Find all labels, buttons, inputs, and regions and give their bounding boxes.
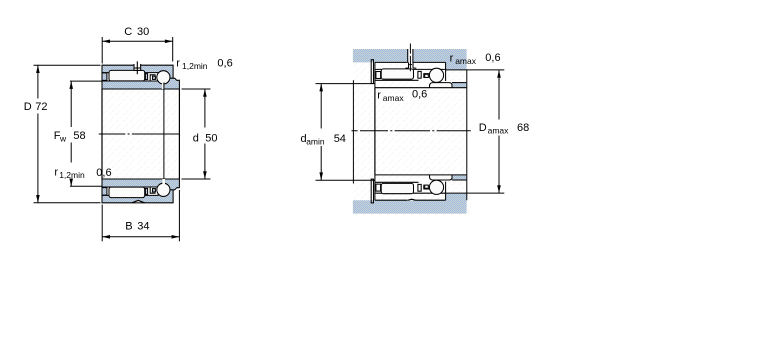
svg-text:54: 54 <box>334 133 346 145</box>
svg-text:r: r <box>450 52 454 64</box>
inner ring (top) with ball shoulder bump <box>102 78 179 89</box>
bore edge left <box>101 89 103 179</box>
svg-text:0,6: 0,6 <box>217 58 232 70</box>
cage corner lines <box>150 75 155 81</box>
d dimension line <box>204 89 206 128</box>
spacer sliver bottom right <box>452 175 466 180</box>
svg-text:w: w <box>59 133 67 143</box>
svg-text:0,6: 0,6 <box>485 52 500 64</box>
ball <box>429 68 443 82</box>
inner ring joint line in bore <box>163 83 165 180</box>
abutment washer bar <box>371 60 373 84</box>
ball (bottom) <box>157 183 170 196</box>
cage cell <box>425 74 429 77</box>
bore line <box>375 87 467 89</box>
narrow rib <box>418 71 421 78</box>
svg-text:amax: amax <box>455 56 477 66</box>
outer ring needle race <box>375 68 408 70</box>
split notch on bottom face right figure <box>408 199 416 201</box>
axis centerline right <box>352 130 471 132</box>
Fw dimension line <box>70 81 72 127</box>
housing top <box>353 49 467 70</box>
shaft shoulder face <box>352 80 354 183</box>
inner ring split gap bottom <box>162 179 165 184</box>
D_a arrows <box>497 70 501 78</box>
d_a dimension line <box>320 84 322 129</box>
housing end face line <box>466 70 468 200</box>
C dimension line <box>102 40 173 42</box>
D dimension line <box>37 65 39 98</box>
svg-text:d: d <box>193 132 199 144</box>
B extension lines <box>101 205 103 242</box>
bearing left face <box>374 62 376 87</box>
spacer sliver top right <box>452 83 466 88</box>
housing lube hole <box>408 49 412 69</box>
Fw extension lines <box>70 80 102 82</box>
figure background hatch right <box>353 49 467 214</box>
outer ring right face <box>445 62 447 81</box>
svg-text:0,6: 0,6 <box>412 89 427 101</box>
svg-text:B: B <box>125 221 132 233</box>
svg-text:r: r <box>176 57 180 69</box>
inner ring bump <box>430 83 453 88</box>
d_a arrows <box>319 84 323 92</box>
d extension lines <box>182 88 211 90</box>
cage bar square 1 <box>145 74 147 80</box>
D_a dimension line <box>498 70 500 120</box>
svg-text:amax: amax <box>488 125 510 135</box>
axis centerline left <box>99 133 180 135</box>
spacer top edge <box>452 82 466 84</box>
svg-text:0,6: 0,6 <box>96 167 111 179</box>
svg-text:r: r <box>54 167 58 179</box>
bore edge right <box>178 89 180 179</box>
mirrored bottom half of left bearing <box>102 179 179 203</box>
lubrication slot (top outer ring) <box>135 64 141 71</box>
flange square <box>376 72 381 79</box>
C extension lines <box>101 37 103 64</box>
B arrows <box>102 235 110 239</box>
svg-text:D: D <box>479 122 487 134</box>
svg-text:68: 68 <box>517 122 529 134</box>
outer ring lube slot <box>408 62 410 68</box>
cage bar square 2 <box>153 76 156 79</box>
D extension lines <box>34 64 101 66</box>
needle rollers <box>381 69 413 79</box>
D_a extension lines <box>446 69 505 71</box>
svg-text:D: D <box>24 101 32 113</box>
lube hole centerline right <box>409 44 411 54</box>
Fw arrows <box>69 81 73 89</box>
outer ring flange square left <box>102 73 107 81</box>
svg-text:50: 50 <box>205 132 217 144</box>
needle rollers (top) <box>109 70 145 81</box>
ball (top) <box>157 71 170 84</box>
inner ring split gap top <box>162 83 164 89</box>
outer ring (top) <box>102 65 173 81</box>
svg-text:amin: amin <box>306 136 325 146</box>
right bearing outline top half <box>371 60 466 88</box>
d arrows <box>203 89 207 97</box>
svg-text:C: C <box>124 26 132 38</box>
svg-text:72: 72 <box>35 101 47 113</box>
C arrows <box>102 40 110 44</box>
housing bottom <box>353 193 467 214</box>
outer ring top face <box>375 61 408 63</box>
svg-text:amax: amax <box>383 93 405 103</box>
svg-text:1,2min: 1,2min <box>59 170 85 180</box>
d_a extension lines <box>316 83 375 85</box>
lubrication hole centerline <box>136 61 138 74</box>
svg-text:r: r <box>377 89 381 101</box>
bore edge line right figure <box>374 88 376 175</box>
svg-text:30: 30 <box>137 26 149 38</box>
svg-text:1,2min: 1,2min <box>182 61 208 71</box>
B dimension line <box>102 236 179 238</box>
inner ring race line <box>375 79 419 81</box>
split notch on bottom outer ring <box>132 200 145 202</box>
svg-text:58: 58 <box>73 130 85 142</box>
cage corner lines <box>424 74 430 78</box>
D arrows <box>36 65 40 73</box>
figure background hatch left <box>100 64 181 204</box>
svg-text:34: 34 <box>137 221 149 233</box>
